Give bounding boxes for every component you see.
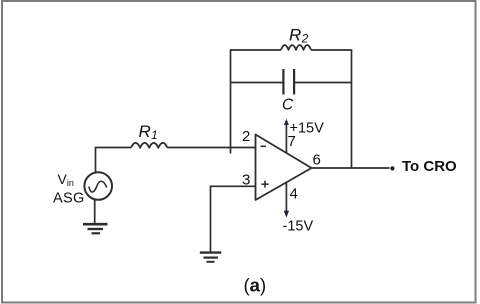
wire feedback left vertical: [230, 49, 232, 153]
svg-text:6: 6: [313, 152, 321, 169]
svg-text:-15V: -15V: [283, 219, 314, 235]
capacitor C plates: [283, 69, 294, 95]
arrow -15V: [284, 211, 289, 218]
svg-text:2: 2: [242, 128, 250, 145]
svg-text:(a): (a): [244, 275, 267, 296]
ground under source: [83, 223, 108, 226]
op-amp plus sign: [262, 181, 269, 188]
resistor R2: [281, 45, 311, 50]
wire top feedback left segment: [231, 49, 282, 51]
wire output: [312, 167, 390, 169]
wire pin 7 supply: [285, 122, 287, 154]
wire R1 to pin 2: [168, 147, 256, 149]
resistor R1: [131, 143, 167, 148]
ground under pin 3: [200, 251, 221, 253]
svg-text:C: C: [282, 97, 294, 114]
wire top feedback right segment: [311, 49, 352, 51]
wire capacitor left: [231, 82, 284, 84]
output end dot: [390, 166, 394, 170]
svg-text:+15V: +15V: [290, 121, 325, 137]
svg-text:To CRO: To CRO: [402, 158, 457, 175]
source V_in circle: [84, 172, 112, 200]
wire source top vertical: [95, 147, 97, 173]
wire pin 3 horizontal: [211, 185, 256, 187]
arrow +15V: [284, 119, 289, 125]
svg-text:4: 4: [290, 186, 298, 203]
sine wave inside source: [89, 181, 107, 192]
wire pin 3 vertical to ground: [210, 186, 212, 252]
svg-text:3: 3: [242, 172, 250, 189]
wire feedback right vertical: [351, 49, 353, 168]
wire pin 4 supply: [285, 183, 287, 213]
svg-text:ASG: ASG: [53, 191, 85, 207]
wire source to ground: [94, 200, 96, 224]
op-amp minus sign: [261, 145, 267, 147]
wire capacitor right: [295, 82, 352, 84]
op-amp U1 triangle: [256, 135, 312, 201]
wire input to pin 2 left segment: [96, 147, 132, 149]
